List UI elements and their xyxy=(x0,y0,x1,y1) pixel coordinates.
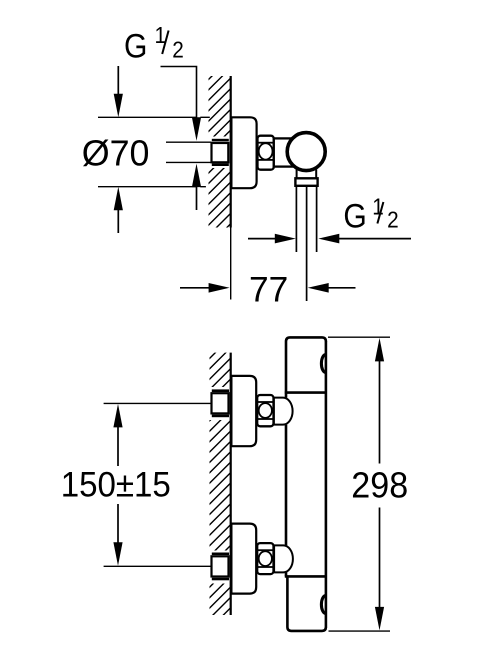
top cap xyxy=(286,337,326,397)
wall face line (bottom view) xyxy=(230,353,232,615)
77 dim right arrow xyxy=(328,287,356,289)
svg-text:2: 2 xyxy=(172,36,184,62)
bottom cap xyxy=(287,576,326,631)
left edge small segment above lower joint xyxy=(285,572,288,576)
svg-text:298: 298 xyxy=(351,465,408,505)
150 dim arrow up xyxy=(113,404,122,428)
upper S-union dome xyxy=(274,397,293,426)
hex nut (top view) xyxy=(258,136,274,170)
upper joint line xyxy=(285,391,326,394)
wall face extension line down xyxy=(230,228,232,300)
outlet pipe centerline xyxy=(306,186,308,301)
svg-text:77: 77 xyxy=(249,270,288,309)
upper knob bump xyxy=(321,355,325,373)
svg-text:150±15: 150±15 xyxy=(61,465,171,504)
298 dim arrow down xyxy=(375,607,384,631)
valve body circle xyxy=(287,133,325,171)
dia 70 extension line bottom xyxy=(98,186,197,188)
dia 70 arrow up xyxy=(117,209,119,233)
298 dim top extension line xyxy=(328,336,390,338)
lower hex nut xyxy=(257,543,273,574)
lower S-union dome xyxy=(274,544,293,573)
valve inlet block xyxy=(274,138,294,166)
150 dim upper extension line xyxy=(104,402,212,404)
wall face line (top view) xyxy=(230,76,232,228)
svg-text:G: G xyxy=(343,197,366,235)
G 1/2 label (top) xyxy=(124,22,184,65)
dia 70 extension line top xyxy=(98,116,197,118)
upper wall union square xyxy=(212,393,229,413)
outlet pipe left line xyxy=(295,186,297,252)
dia 70 arrow down xyxy=(117,66,119,95)
lower knob bump xyxy=(321,596,325,614)
wall hatching (bottom view) xyxy=(196,332,236,653)
77 dim left arrow xyxy=(180,287,210,289)
svg-text:G: G xyxy=(124,27,147,65)
upper escutcheon xyxy=(231,376,256,446)
G 1/2 thread extension lines xyxy=(166,141,212,143)
left edge mid segment xyxy=(285,425,288,546)
wall union square xyxy=(212,143,229,162)
arrow down to thread line xyxy=(192,117,201,141)
150 dim arrow down xyxy=(113,542,122,566)
svg-text:2: 2 xyxy=(387,207,399,233)
G 1/2 thread arrow up (below) xyxy=(196,186,198,210)
lower escutcheon xyxy=(231,524,256,594)
150 dim lower extension line xyxy=(104,565,212,567)
wall union flange bottom bar xyxy=(212,163,229,166)
G 1/2 label (right) xyxy=(343,193,398,235)
svg-text:Ø70: Ø70 xyxy=(82,132,150,173)
upper hex nut xyxy=(257,395,273,426)
bar body outline xyxy=(285,337,326,631)
outlet pipe right line xyxy=(316,186,318,252)
collar xyxy=(295,178,317,186)
wall hatching (top view) xyxy=(196,52,236,269)
G 1/2 right dim: left arrow xyxy=(248,238,276,240)
wall union flange top bar xyxy=(212,139,229,142)
lower wall union square xyxy=(212,556,229,576)
G 1/2 right dim: right arrow xyxy=(338,238,411,240)
lower wall union flange bars xyxy=(212,553,229,556)
neck below circle xyxy=(296,170,298,179)
escutcheon (top view) xyxy=(231,117,256,188)
leader from G 1/2 label xyxy=(161,67,197,119)
298 dim arrow up xyxy=(375,338,384,362)
right edge xyxy=(325,341,328,628)
298 dim bottom extension line xyxy=(329,630,391,632)
upper wall union flange bars xyxy=(212,389,229,392)
lower joint line xyxy=(285,575,326,578)
